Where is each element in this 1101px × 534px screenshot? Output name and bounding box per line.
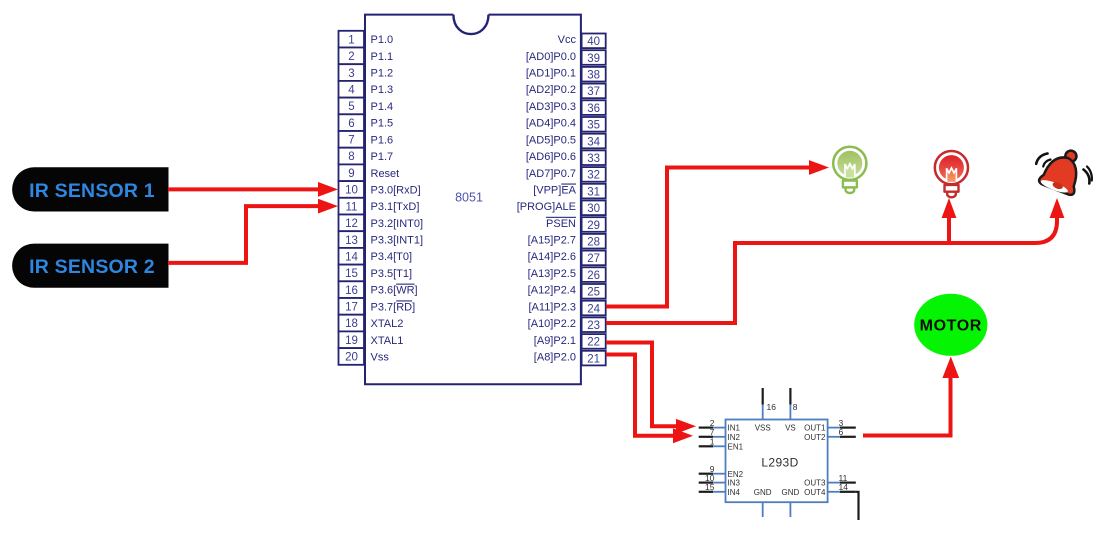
8051 pin 39 box, number and label <box>526 50 606 65</box>
wire from L293D OUT4 going down <box>856 492 859 520</box>
8051 pin 31 box, number and label <box>533 184 606 199</box>
svg-text:14: 14 <box>839 482 849 492</box>
svg-text:[A15]P2.7: [A15]P2.7 <box>528 235 576 247</box>
svg-text:P3.7[RD]: P3.7[RD] <box>371 301 416 313</box>
8051 pin 17 (P3.7) box, number and label <box>339 298 416 315</box>
svg-text:[A13]P2.5: [A13]P2.5 <box>528 268 576 280</box>
svg-text:P1.6: P1.6 <box>371 134 394 146</box>
8051 pin 12 (P3.2) box, number and label <box>339 215 424 232</box>
svg-text:16: 16 <box>345 285 358 297</box>
svg-text:31: 31 <box>587 186 600 198</box>
8051 pin 21 box, number and label <box>534 351 606 366</box>
8051 pin 7 (P1.6) box, number and label <box>339 131 394 148</box>
8051 pin 2 (P1.1) box, number and label <box>339 48 394 65</box>
8051 pin 5 (P1.4) box, number and label <box>339 98 394 115</box>
8051 pin 8 (P1.7) box, number and label <box>339 148 394 165</box>
8051 pin 18 (XTAL2) box, number and label <box>339 315 404 332</box>
svg-text:5: 5 <box>348 101 354 113</box>
svg-text:OUT2: OUT2 <box>804 433 826 442</box>
svg-text:36: 36 <box>587 103 600 115</box>
svg-text:L293D: L293D <box>761 456 798 470</box>
svg-text:[AD7]P0.7: [AD7]P0.7 <box>526 168 576 180</box>
svg-text:[AD3]P0.3: [AD3]P0.3 <box>526 101 576 113</box>
op-amp U1: 8051 microcontroller IC body <box>365 15 581 385</box>
L293D pin 11 (OUT3) stub and label <box>804 473 856 488</box>
svg-text:[A14]P2.6: [A14]P2.6 <box>528 251 576 263</box>
svg-text:P3.4[T0]: P3.4[T0] <box>371 251 413 263</box>
svg-text:1: 1 <box>348 34 354 46</box>
svg-text:7: 7 <box>348 135 354 147</box>
svg-text:[PROG]ALE: [PROG]ALE <box>517 201 576 213</box>
8051 pin 6 (P1.5) box, number and label <box>339 114 394 131</box>
svg-text:P1.4: P1.4 <box>371 101 394 113</box>
L293D pin 14 (OUT4) stub and label <box>804 482 856 497</box>
8051 pin 36 box, number and label <box>526 100 606 115</box>
svg-text:MOTOR: MOTOR <box>920 318 982 335</box>
8051 pin 38 box, number and label <box>526 67 606 82</box>
IR SENSOR 1 block <box>12 167 168 211</box>
svg-text:[A12]P2.4: [A12]P2.4 <box>528 285 576 297</box>
svg-text:39: 39 <box>587 53 600 65</box>
8051 pin 32 box, number and label <box>526 167 606 182</box>
svg-text:EN1: EN1 <box>728 442 744 451</box>
8051 part number label <box>455 191 483 205</box>
8051 pin 24 box, number and label <box>529 301 606 316</box>
svg-text:P1.5: P1.5 <box>371 118 394 130</box>
8051 pin 33 box, number and label <box>526 150 606 165</box>
svg-text:P1.1: P1.1 <box>371 51 394 63</box>
L293D pin 3 (OUT1) stub and label <box>804 418 856 433</box>
svg-text:P3.6[WR]: P3.6[WR] <box>371 285 418 297</box>
svg-text:GND: GND <box>754 488 772 497</box>
8051 pin 34 box, number and label <box>526 134 606 149</box>
svg-text:[AD5]P0.5: [AD5]P0.5 <box>526 134 576 146</box>
svg-text:IN1: IN1 <box>728 424 741 433</box>
8051 pin 13 (P3.3) box, number and label <box>339 231 424 248</box>
svg-text:IN4: IN4 <box>728 488 741 497</box>
8051 pin 11 (P3.1) box, number and label <box>339 198 420 215</box>
svg-text:OUT1: OUT1 <box>804 424 826 433</box>
svg-text:EN2: EN2 <box>728 470 744 479</box>
svg-text:30: 30 <box>587 203 600 215</box>
IR SENSOR 2 block <box>12 244 168 288</box>
wire from IR SENSOR 1 to 8051 pin 10 <box>168 182 338 197</box>
svg-text:12: 12 <box>345 218 358 230</box>
svg-text:PSEN: PSEN <box>546 218 576 230</box>
L293D pin 9 (EN2) stub and label <box>699 464 744 479</box>
svg-text:15: 15 <box>345 268 358 280</box>
svg-text:Reset: Reset <box>371 168 400 180</box>
svg-text:38: 38 <box>587 70 600 82</box>
svg-text:11: 11 <box>346 201 358 213</box>
svg-text:18: 18 <box>345 318 358 330</box>
svg-text:[AD2]P0.2: [AD2]P0.2 <box>526 84 576 96</box>
svg-text:27: 27 <box>587 253 600 265</box>
wire from L293D OUT2 to motor <box>863 357 959 436</box>
L293D pin 1 (EN1) stub and label <box>699 437 744 452</box>
L293D GND label 1 <box>754 488 772 497</box>
8051 pin 28 box, number and label <box>528 234 606 249</box>
8051 pin 20 (Vss) box, number and label <box>339 348 390 365</box>
8051 pin 19 (XTAL1) box, number and label <box>339 331 404 348</box>
svg-text:8: 8 <box>348 151 354 163</box>
L293D pin 8 VS supply stub <box>790 388 797 420</box>
8051 pin 10 (P3.0) box, number and label <box>339 181 421 198</box>
svg-text:8: 8 <box>793 402 798 412</box>
svg-text:35: 35 <box>587 120 600 132</box>
svg-text:37: 37 <box>587 86 600 98</box>
motor M1: DC motor <box>914 294 987 356</box>
wire from 8051 pin 23 to red LED and buzzer <box>606 198 1064 323</box>
L293D pin 15 (IN4) stub and label <box>699 482 741 497</box>
LED D1: green indicator bulb <box>833 147 866 193</box>
svg-text:21: 21 <box>587 353 600 365</box>
svg-text:[AD6]P0.6: [AD6]P0.6 <box>526 151 576 163</box>
svg-text:10: 10 <box>345 185 358 197</box>
svg-text:6: 6 <box>348 118 354 130</box>
L293D VSS label <box>755 424 771 433</box>
wire branch junction to red LED arrow <box>942 198 957 243</box>
svg-text:IR SENSOR 2: IR SENSOR 2 <box>29 256 155 278</box>
svg-text:34: 34 <box>587 136 600 148</box>
svg-text:33: 33 <box>587 153 600 165</box>
svg-text:[A8]P2.0: [A8]P2.0 <box>534 351 576 363</box>
LED D2: red indicator bulb <box>935 151 968 197</box>
svg-text:OUT3: OUT3 <box>804 479 826 488</box>
svg-text:XTAL1: XTAL1 <box>371 335 404 347</box>
svg-text:[A9]P2.1: [A9]P2.1 <box>534 335 576 347</box>
svg-text:26: 26 <box>587 270 600 282</box>
svg-text:[A10]P2.2: [A10]P2.2 <box>528 318 576 330</box>
svg-text:P3.5[T1]: P3.5[T1] <box>371 268 413 280</box>
8051 pin 35 box, number and label <box>526 117 606 132</box>
L293D pin 7 (IN2) stub and label <box>699 427 741 442</box>
8051 pin 27 box, number and label <box>528 251 606 266</box>
svg-text:P3.3[INT1]: P3.3[INT1] <box>371 235 424 247</box>
svg-text:P3.2[INT0]: P3.2[INT0] <box>371 218 424 230</box>
svg-text:VS: VS <box>785 424 796 433</box>
svg-text:P1.0: P1.0 <box>371 34 394 46</box>
svg-text:[AD4]P0.4: [AD4]P0.4 <box>526 118 576 130</box>
svg-text:[VPP]EA: [VPP]EA <box>533 185 576 197</box>
8051 pin 15 (P3.5) box, number and label <box>339 265 413 282</box>
svg-text:P1.2: P1.2 <box>371 68 394 80</box>
8051 pin 40 box, number and label <box>558 34 606 49</box>
svg-text:4: 4 <box>348 85 355 97</box>
8051 pin 16 (P3.6) box, number and label <box>339 281 418 298</box>
svg-text:[AD1]P0.1: [AD1]P0.1 <box>526 68 576 80</box>
8051 pin 25 box, number and label <box>528 284 606 299</box>
svg-text:29: 29 <box>587 220 600 232</box>
svg-text:IR SENSOR 1: IR SENSOR 1 <box>29 180 155 202</box>
svg-text:XTAL2: XTAL2 <box>371 318 404 330</box>
svg-text:P3.1[TxD]: P3.1[TxD] <box>371 201 420 213</box>
wire from 8051 pin 21 to L293D IN2 <box>606 355 693 444</box>
8051 pin 14 (P3.4) box, number and label <box>339 248 413 265</box>
L293D pin 16 VSS supply stub <box>763 388 777 420</box>
svg-text:15: 15 <box>705 482 715 492</box>
svg-text:25: 25 <box>587 287 600 299</box>
L293D pin 10 (IN3) stub and label <box>699 473 741 488</box>
svg-text:19: 19 <box>345 335 358 347</box>
svg-text:20: 20 <box>345 352 358 364</box>
svg-text:P1.7: P1.7 <box>371 151 394 163</box>
8051 pin 4 (P1.3) box, number and label <box>339 81 394 98</box>
8051 pin 3 (P1.2) box, number and label <box>339 64 394 81</box>
svg-text:IN2: IN2 <box>728 433 741 442</box>
8051 pin 30 box, number and label <box>517 201 606 216</box>
L293D ground stub 2 <box>789 502 791 517</box>
L293D ground stub 1 <box>762 502 764 517</box>
svg-text:23: 23 <box>587 320 600 332</box>
L293D GND label 2 <box>782 488 800 497</box>
svg-text:VSS: VSS <box>755 424 771 433</box>
L293D pin 6 (OUT2) stub and label <box>804 427 856 442</box>
wire from IR SENSOR 2 to 8051 pin 11 <box>168 199 338 263</box>
svg-text:32: 32 <box>587 170 600 182</box>
svg-text:2: 2 <box>348 51 354 63</box>
8051 pin 23 box, number and label <box>528 317 606 332</box>
svg-text:[A11]P2.3: [A11]P2.3 <box>529 301 577 313</box>
8051 pin 26 box, number and label <box>528 267 606 282</box>
svg-text:28: 28 <box>587 237 600 249</box>
buzzer BZ1: alarm bell icon <box>1036 143 1092 197</box>
L293D VS label <box>785 424 796 433</box>
svg-text:GND: GND <box>782 488 800 497</box>
svg-text:13: 13 <box>345 235 358 247</box>
wire from 8051 pin 22 to L293D IN1 <box>606 343 696 434</box>
svg-text:8051: 8051 <box>455 191 483 205</box>
svg-text:9: 9 <box>348 168 354 180</box>
svg-text:22: 22 <box>587 337 600 349</box>
svg-text:[AD0]P0.0: [AD0]P0.0 <box>526 51 576 63</box>
svg-text:IN3: IN3 <box>728 479 741 488</box>
svg-text:OUT4: OUT4 <box>804 488 826 497</box>
svg-text:40: 40 <box>587 36 600 48</box>
svg-text:1: 1 <box>710 437 715 447</box>
8051 pin 9 (Reset) box, number and label <box>339 164 400 181</box>
svg-text:14: 14 <box>345 251 358 263</box>
svg-text:24: 24 <box>587 303 600 315</box>
8051 pin 22 box, number and label <box>534 334 606 349</box>
svg-text:Vss: Vss <box>371 351 390 363</box>
L293D pin 2 (IN1) stub and label <box>699 418 741 433</box>
wire from 8051 pin 24 to green LED <box>606 160 829 306</box>
svg-text:7: 7 <box>710 427 715 437</box>
svg-text:6: 6 <box>839 427 844 437</box>
svg-text:16: 16 <box>767 402 777 412</box>
op-amp U2: L293D motor driver IC body <box>726 420 828 503</box>
8051 pin 29 box, number and label <box>546 217 606 232</box>
svg-text:17: 17 <box>345 302 358 314</box>
8051 pin 37 box, number and label <box>526 84 606 99</box>
svg-text:3: 3 <box>348 68 354 80</box>
svg-text:P1.3: P1.3 <box>371 84 394 96</box>
svg-text:P3.0[RxD]: P3.0[RxD] <box>371 185 421 197</box>
8051 pin 1 (P1.0) box, number and label <box>339 31 394 48</box>
svg-text:Vcc: Vcc <box>558 34 577 46</box>
